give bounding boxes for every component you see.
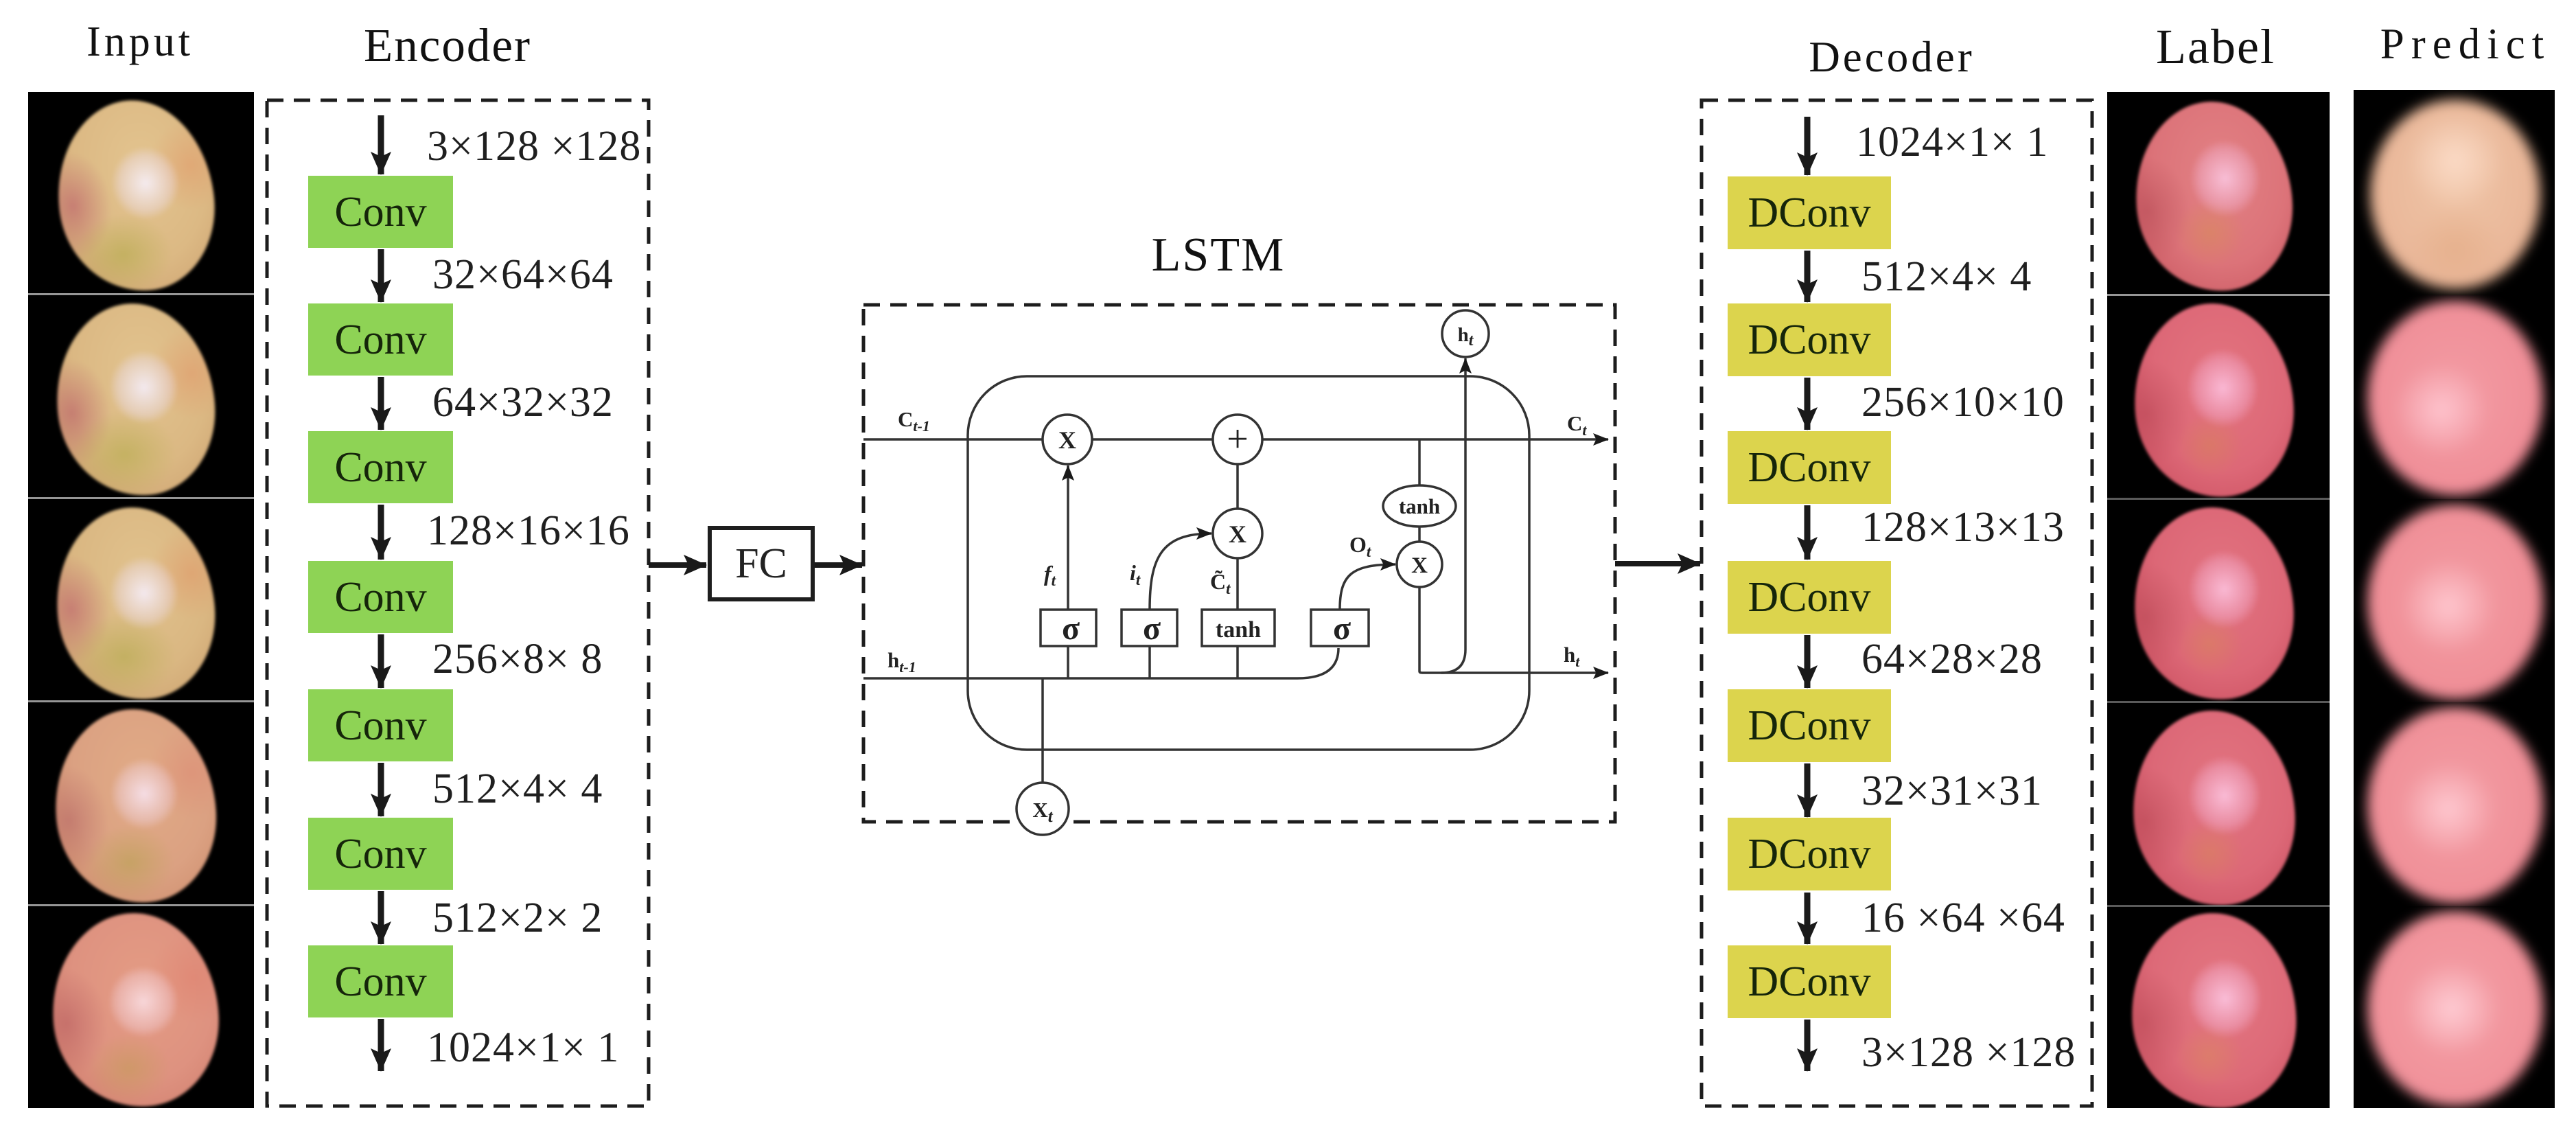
label image 3 [2107,499,2330,702]
input image 1 [28,92,254,295]
svg-text:C̃t: C̃t [1210,569,1231,597]
X1 multiply circle [1043,415,1092,464]
tanh ellipse [1383,485,1456,527]
tanh box stem down [1236,646,1239,678]
X3 multiply circle [1397,542,1442,587]
svg-text:X: X [1229,520,1246,548]
encoder flow arrow 1 [378,249,384,302]
dim label 128x13x13 [1861,506,2065,549]
column title: LSTM [1152,231,1286,279]
conv block 4 [308,561,453,633]
encoder flow arrow 5 [378,763,384,816]
encoder flow arrow 7 [378,1019,384,1071]
encoder flow arrow 6 [378,891,384,944]
conv block 5 [308,689,453,761]
h_t output circle [1442,310,1489,357]
predict image 4 [2354,702,2555,906]
dim label 1024x1x1 [1856,121,2048,163]
label image 5 [2107,906,2330,1108]
dim label 512x2x2 [432,897,603,939]
arrow encoder to FC [649,562,706,568]
dim label 128x16x16 [427,509,630,552]
decoder flow arrow 0 [1805,117,1811,175]
dim label 32x64x64 [432,253,614,296]
label image 2 [2107,295,2330,499]
svg-text:Ct: Ct [1567,411,1587,439]
sigma gate box 2 [1122,610,1177,646]
dconv block 1 [1728,176,1891,249]
svg-text:σ: σ [1333,610,1351,647]
dim label 32x31x31 [1861,770,2043,812]
decoder flow arrow 1 [1805,251,1811,302]
dim label 3x128x128 [427,125,641,168]
dim label 512x4x4 [1861,255,2032,298]
dim label 64x32x32 [432,381,614,424]
LSTM dashed box [863,305,1615,822]
svg-text:σ: σ [1062,610,1080,647]
sigma1 stem down [1067,646,1069,678]
tanh ellipse to X3 [1418,527,1421,542]
input image 3 [28,499,254,702]
decoder flow arrow 6 [1805,893,1811,944]
sigma2 curve to X2 [1150,533,1211,610]
svg-text:tanh: tanh [1216,617,1261,643]
dim label 64x28x28 [1861,638,2043,680]
input image 5 [28,906,254,1108]
encoder flow arrow 0 [378,115,384,174]
svg-text:σ: σ [1143,610,1161,647]
decoder flow arrow 3 [1805,505,1811,560]
dconv block 3 [1728,431,1891,504]
svg-text:tanh: tanh [1399,494,1440,518]
input image 2 [28,295,254,499]
decoder flow arrow 2 [1805,378,1811,430]
sigma gate box 1 [1041,610,1096,646]
arrow LSTM to decoder [1615,561,1700,566]
LSTM cell rounded rectangle [968,376,1529,750]
arrow FC to LSTM [815,562,862,568]
C line (cell state) [863,438,1608,441]
svg-text:X: X [1411,553,1428,578]
predict image 5 [2354,906,2555,1108]
column title: Label [2156,22,2275,71]
label image 1 [2107,92,2330,295]
conv block 2 [308,303,453,376]
input column separators [28,293,254,295]
conv block 7 [308,945,453,1017]
decoder flow arrow 5 [1805,763,1811,817]
predict image 2 [2354,295,2555,499]
predict image 1 [2354,90,2555,295]
svg-text:ft: ft [1044,561,1056,589]
input image 4 [28,702,254,906]
FC box [708,526,815,601]
X2 to plus connector [1236,464,1239,509]
plus circle [1213,415,1262,464]
Xt input circle [1017,783,1069,835]
encoder flow arrow 3 [378,505,384,560]
h_t riser branch [1441,358,1465,673]
dim label 16x64x64 [1861,897,2065,939]
decoder flow arrow 7 [1805,1020,1811,1071]
tanh box stem up to X2 [1236,558,1239,610]
h line left segment [863,648,1338,678]
svg-text:ht: ht [1564,643,1580,670]
conv block 3 [308,431,453,503]
dconv block 5 [1728,689,1891,762]
column title: Decoder [1809,36,1974,79]
svg-text:it: it [1130,560,1141,588]
C branch down to tanh ellipse [1418,439,1421,485]
svg-text:ht-1: ht-1 [887,648,916,676]
dim label 256x10x10 [1861,381,2065,424]
predict image 3 [2354,499,2555,702]
svg-text:Ct-1: Ct-1 [898,407,930,435]
conv block 6 [308,818,453,890]
sigma3 curve to X3 [1340,564,1395,610]
dconv block 4 [1728,561,1891,634]
encoder flow arrow 2 [378,377,384,430]
h line right segment from X3 [1419,587,1608,673]
dconv block 2 [1728,303,1891,376]
column title: Predict [2380,23,2551,66]
conv block 1 [308,176,453,248]
label image 4 [2107,702,2330,906]
dim label 512x4x4 [432,768,603,810]
encoder dashed box [267,100,649,1106]
svg-text:Ot: Ot [1349,532,1371,560]
sigma1 stem up to X1 [1067,465,1069,610]
encoder flow arrow 4 [378,634,384,688]
sigma2 stem down [1148,646,1151,678]
dconv block 6 [1728,818,1891,890]
dim label 256x8x8 [432,638,603,680]
Xt stem [1041,678,1044,783]
dim label 3x128x128 [1861,1031,2076,1074]
decoder dashed box [1702,100,2092,1106]
svg-text:X: X [1058,426,1076,454]
sigma gate box 3 [1311,610,1369,646]
tanh gate box [1202,610,1275,646]
column title: Encoder [364,22,531,69]
dconv block 7 [1728,945,1891,1018]
svg-text:+: + [1227,418,1249,461]
dim label 1024x1x1 [427,1026,619,1069]
decoder flow arrow 4 [1805,635,1811,688]
X2 multiply circle [1213,509,1262,558]
column title: Input [86,21,194,63]
label column separators [2107,294,2330,296]
